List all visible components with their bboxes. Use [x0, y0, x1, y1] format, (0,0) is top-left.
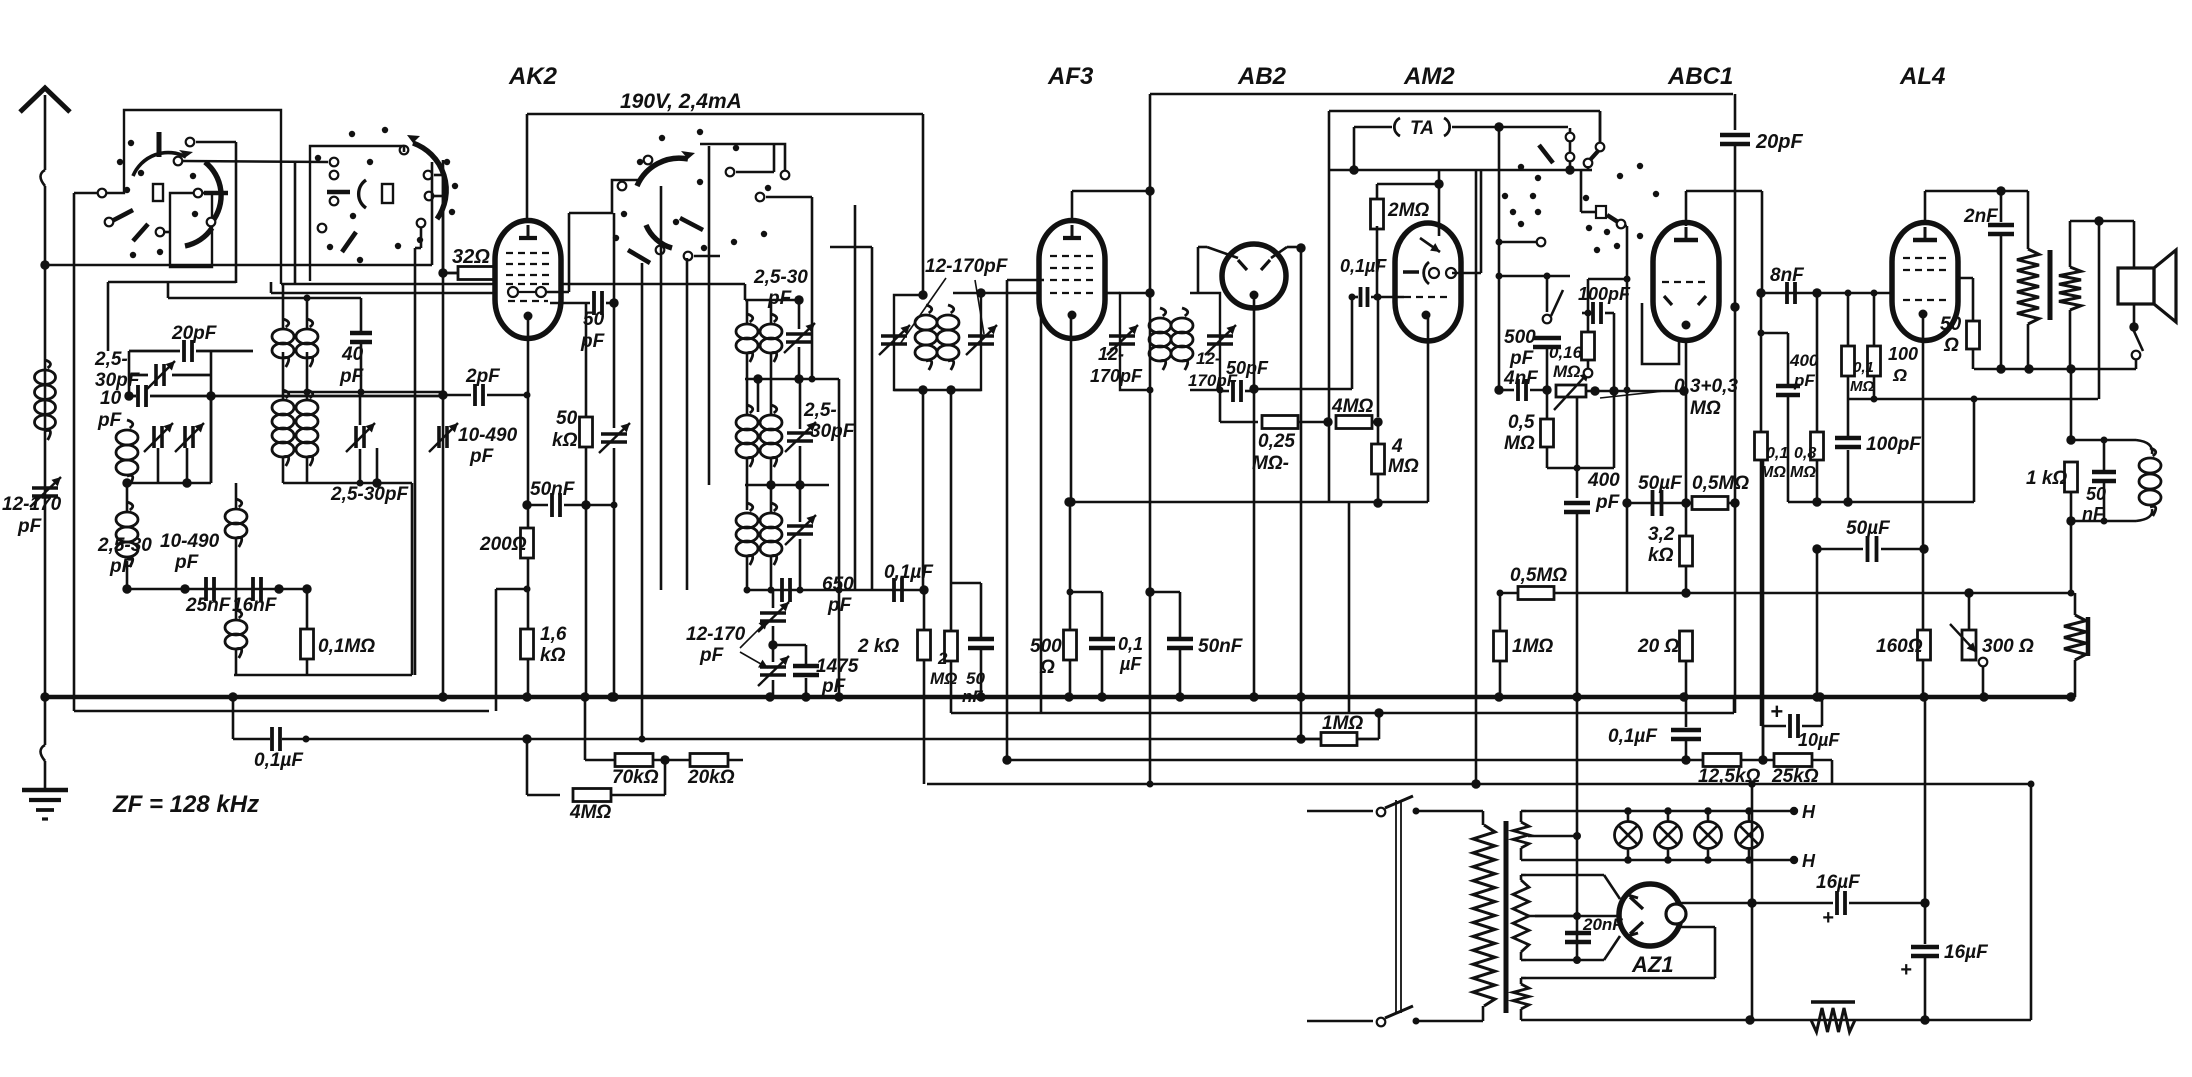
band switch S3 dots — [659, 135, 665, 141]
trimmer IFT2 right — [1207, 334, 1233, 338]
band switch S1 terminals — [98, 189, 107, 198]
wire lamps rows — [1526, 810, 1794, 813]
capacitor 50nF tone — [2092, 470, 2116, 475]
resistor 2Mohm AM2 — [1371, 199, 1384, 229]
rect filament winding — [1513, 984, 1529, 1009]
wire S3 terminal wires — [694, 255, 720, 258]
svg-text:500: 500 — [1504, 327, 1536, 348]
resistor 0,8Mohm AVC — [1811, 432, 1824, 460]
tube AL4 — [1892, 223, 1958, 341]
svg-text:MΩ: MΩ — [930, 669, 957, 688]
trimmer 2,5-30pF osc2 — [786, 332, 812, 336]
svg-text:70kΩ: 70kΩ — [612, 767, 659, 788]
capacitor 50pF — [592, 291, 596, 315]
wire 70k 20k row — [584, 747, 586, 760]
tube AK2 — [495, 221, 561, 339]
wire x1041 — [1040, 310, 1043, 713]
tube AZ1 — [1619, 884, 1681, 946]
output transformer primary — [2017, 249, 2039, 324]
wire output transformer primary — [2027, 191, 2030, 249]
resistor 20ohm — [1680, 631, 1693, 661]
coil osc pair 3 — [747, 503, 753, 511]
coil pair B — [283, 390, 289, 398]
svg-text:30pF: 30pF — [810, 421, 856, 442]
wire x1627 volume feed — [1626, 226, 1629, 503]
wire x1301 long — [1300, 247, 1303, 697]
wire pot network — [1498, 127, 1501, 390]
svg-text:MΩ-: MΩ- — [1252, 453, 1289, 474]
svg-text:AL4: AL4 — [1899, 63, 1945, 90]
svg-text:12-170: 12-170 — [2, 494, 62, 515]
svg-text:2,5-30: 2,5-30 — [97, 535, 152, 556]
wire S1 terminal wires — [196, 141, 236, 144]
capacitor 40pF — [350, 331, 372, 336]
resistor 0,5Mohm 593 — [1518, 587, 1554, 600]
svg-text:2: 2 — [937, 649, 948, 668]
svg-text:AB2: AB2 — [1237, 63, 1287, 90]
wire line AK2 g line to osc — [559, 283, 745, 286]
svg-text:0,1: 0,1 — [1766, 445, 1788, 462]
svg-text:pF: pF — [821, 676, 847, 697]
svg-text:10µF: 10µF — [1798, 730, 1840, 750]
svg-text:ABC1: ABC1 — [1667, 63, 1733, 90]
capacitor 650pF — [780, 578, 784, 602]
trimmer 2,5-30 pF — [152, 426, 156, 448]
band switch S2 levers — [327, 190, 350, 195]
capacitor 50uF AL4 — [1866, 536, 1870, 562]
capacitor 20pF — [182, 340, 186, 362]
wire grid4 line AK2 — [271, 292, 495, 295]
trimmer IFT1 right — [968, 334, 994, 338]
svg-text:0,16: 0,16 — [1549, 343, 1583, 362]
band switch S1 levers — [110, 210, 133, 222]
svg-text:pF: pF — [580, 331, 606, 352]
svg-text:pF: pF — [1595, 492, 1621, 513]
svg-text:MΩ: MΩ — [1690, 398, 1721, 419]
svg-text:MΩ: MΩ — [1850, 378, 1874, 395]
lamp — [1655, 822, 1682, 849]
wire 50uF line — [1816, 502, 1818, 549]
wire power bottom line — [1521, 1019, 2031, 1022]
wire x661 — [660, 186, 663, 590]
band switch S4 cluster — [1518, 164, 1524, 170]
coil L1 — [127, 420, 133, 428]
wire pair B bottom — [283, 482, 412, 485]
svg-text:0,8: 0,8 — [1794, 445, 1816, 462]
svg-text:0,1µF: 0,1µF — [1340, 256, 1387, 276]
ABC1 grid U — [1642, 303, 1679, 364]
wire 50k drop — [585, 303, 587, 417]
wire 0,25M row — [1220, 421, 1258, 424]
svg-text:pF: pF — [469, 446, 495, 467]
wire TA line — [1354, 126, 1392, 129]
svg-text:10-490: 10-490 — [458, 425, 518, 446]
wire rail B — [951, 712, 1734, 715]
wire tank B bottom — [745, 484, 829, 487]
tube AB2 — [1222, 244, 1286, 308]
svg-text:25nF: 25nF — [185, 595, 232, 616]
svg-text:300 Ω: 300 Ω — [1982, 636, 2034, 657]
resistor 0,5Mohm vert — [1541, 419, 1554, 447]
svg-text:50pF: 50pF — [1226, 358, 1269, 378]
trimmer 12-170pF osc B — [760, 665, 786, 669]
resistor 0,25Mohm — [1262, 416, 1298, 429]
wire osc tank bottom — [745, 378, 839, 381]
wire 50nF row — [527, 504, 586, 506]
svg-text:50: 50 — [1940, 314, 1962, 335]
capacitor 2nF — [1988, 223, 2014, 228]
variable capacitor 12-170pF antenna — [32, 486, 58, 490]
svg-text:MΩ: MΩ — [1790, 464, 1816, 481]
svg-text:20pF: 20pF — [171, 323, 218, 344]
lamp — [1615, 822, 1642, 849]
capacitor 0,1uF AK2 — [892, 578, 896, 602]
wire x2099 — [2098, 221, 2101, 399]
wire rail 0,1uF AVC — [232, 697, 235, 739]
svg-text:AM2: AM2 — [1403, 63, 1455, 90]
band switch S4 bottom terminal — [1499, 241, 1536, 244]
svg-text:1475: 1475 — [816, 656, 859, 677]
wire 100pF right — [1613, 313, 1616, 391]
wire 50uF row — [1628, 502, 1686, 505]
trimmer IFT1 left — [881, 334, 907, 338]
band switch S1 inner box — [170, 193, 212, 267]
wire long vertical x442 — [442, 160, 445, 697]
svg-text:0,25: 0,25 — [1258, 431, 1295, 452]
wire 4M vertical — [1377, 422, 1380, 444]
capacitor 50nF IF — [968, 637, 994, 642]
svg-text:kΩ: kΩ — [1648, 545, 1674, 566]
svg-text:8nF: 8nF — [1770, 265, 1805, 286]
output transformer secondary — [2059, 267, 2081, 310]
capacitor 20nF — [1565, 931, 1591, 936]
wire rail grid-bias right segment — [1006, 759, 1812, 762]
wire x415 long — [420, 227, 423, 248]
capacitor 10pF — [136, 385, 140, 407]
HV winding — [1513, 880, 1529, 952]
IF transformer 2 left box — [1120, 293, 1150, 390]
resistor 25kohm — [1774, 754, 1812, 767]
wire AZ1 filament line — [1535, 915, 1618, 918]
svg-text:MΩ: MΩ — [1388, 456, 1419, 477]
wire AL4 anode — [1924, 191, 1927, 223]
svg-text:50µF: 50µF — [1638, 473, 1683, 494]
svg-text:100pF: 100pF — [1578, 284, 1631, 304]
svg-text:12-: 12- — [1196, 349, 1221, 368]
svg-text:+: + — [1900, 959, 1912, 981]
svg-text:400: 400 — [1789, 351, 1819, 370]
tone network 1k 50nF coil — [2070, 369, 2073, 440]
svg-text:MΩ: MΩ — [1553, 362, 1580, 381]
barretter — [1811, 1000, 1855, 1003]
capacitor 50nF AK2 — [550, 493, 554, 517]
wire grid line joins — [206, 391, 215, 400]
resistor 4Mohm AB2 — [1336, 416, 1372, 429]
wire AF3 anode — [1071, 191, 1074, 221]
wire left vertical from S1 terminal — [74, 192, 97, 195]
wire anode down 2nF — [2000, 191, 2003, 222]
svg-text:1,6: 1,6 — [540, 624, 567, 645]
svg-text:0,1: 0,1 — [1118, 634, 1143, 654]
svg-text:200Ω: 200Ω — [479, 534, 527, 555]
svg-text:AF3: AF3 — [1047, 63, 1094, 90]
band switch S1 frame — [102, 110, 281, 284]
wire x1925 below bus — [1924, 697, 1927, 903]
capacitor 100pF AL4 — [1835, 436, 1861, 441]
wire x839 — [838, 379, 841, 697]
capacitor 4nF — [1516, 379, 1520, 401]
band switch S4 path to grid — [1580, 170, 1583, 212]
wire speaker return — [1974, 368, 2136, 371]
wire antenna junction — [40, 260, 49, 269]
svg-text:12-170pF: 12-170pF — [925, 256, 1009, 277]
svg-text:0,5MΩ: 0,5MΩ — [1510, 565, 1567, 586]
svg-text:Ω: Ω — [1039, 657, 1055, 678]
IFT1 coils — [926, 305, 932, 313]
svg-text:0,1MΩ: 0,1MΩ — [318, 636, 375, 657]
svg-text:2 kΩ: 2 kΩ — [857, 636, 899, 657]
svg-text:1 kΩ: 1 kΩ — [2026, 468, 2067, 489]
wire AB2 anode feed — [1207, 247, 1238, 258]
wire 50nF branch — [1150, 591, 1180, 594]
svg-text:20nF: 20nF — [1582, 915, 1623, 934]
resistor 1Mohm horiz — [1321, 733, 1357, 746]
wire pot bottom loop — [1547, 467, 1614, 470]
wire osc coil mid — [235, 483, 238, 509]
wire IFT1 right down — [950, 390, 953, 583]
svg-text:12-170: 12-170 — [686, 624, 746, 645]
wire pot wiper — [1576, 397, 1579, 498]
capacitor 20pF — [1733, 93, 1735, 95]
svg-text:16nF: 16nF — [232, 595, 278, 616]
heater winding top — [1513, 822, 1529, 848]
capacitor 10uF — [1762, 726, 1765, 760]
wire trimmer bottoms — [127, 482, 211, 485]
resistor 0,16Mohm — [1582, 332, 1595, 360]
svg-text:+: + — [1822, 907, 1834, 929]
svg-text:+: + — [1770, 699, 1783, 724]
resistor 0,1Mohm AL4 — [1842, 346, 1855, 376]
wire 190V rail — [527, 113, 923, 116]
trimmer 2,5-30pF osc — [354, 426, 358, 448]
wire x1763 from AVC — [1762, 461, 1765, 760]
svg-text:20 Ω: 20 Ω — [1637, 636, 1679, 657]
band switch S2 arcs — [413, 143, 446, 219]
svg-text:16µF: 16µF — [1816, 872, 1861, 893]
resistor 100ohm — [1868, 346, 1881, 376]
wire 8nF line — [1761, 191, 1764, 293]
wire AL4 cathode — [1922, 314, 1925, 697]
band switch S2 dots — [349, 131, 355, 137]
wire B+ vertical — [1751, 784, 1754, 903]
tube AF3 — [1039, 221, 1105, 339]
wire x1150 down — [1149, 191, 1152, 293]
coil L2 — [126, 483, 129, 512]
wire x709 — [708, 146, 711, 485]
transformer primary — [1482, 811, 1485, 825]
wire S2 terminal wires — [403, 146, 406, 152]
wire x855 x872 long — [854, 205, 857, 590]
wire AF3 grid line — [981, 292, 1039, 295]
band switch S3 frame — [612, 144, 785, 213]
lamp — [1736, 822, 1763, 849]
resistor 50ohm — [1967, 321, 1980, 349]
wire 0,1uF branch — [1070, 591, 1102, 594]
capacitor 16nF — [251, 577, 255, 601]
trimmer 10-490 pF — [183, 426, 187, 448]
resistor 0,5Mohm horiz — [1692, 497, 1728, 510]
wire AB2 anode2 — [1271, 247, 1287, 258]
trimmer 12-170pF osc A — [760, 611, 786, 615]
wire second tank — [757, 379, 760, 412]
svg-text:10: 10 — [100, 388, 122, 409]
IFT2 coils — [1160, 308, 1166, 316]
wire right box vertical — [411, 483, 414, 675]
AZ1 cathode loop — [1679, 926, 1715, 929]
svg-text:10-490: 10-490 — [160, 531, 220, 552]
output transformer core — [2048, 250, 2053, 320]
wire 4Mohm loop — [526, 739, 529, 795]
svg-text:1MΩ: 1MΩ — [1512, 636, 1553, 657]
capacitor 2pF — [473, 384, 477, 406]
wire x642 long — [641, 263, 644, 739]
svg-text:100: 100 — [1888, 344, 1918, 364]
wire 1M lead — [1374, 708, 1383, 717]
svg-text:TA: TA — [1410, 118, 1434, 139]
svg-text:MΩ: MΩ — [1760, 464, 1786, 481]
wire AM2 g out right — [1452, 272, 1481, 275]
winding tap top — [1528, 835, 1577, 838]
resistor 0,1Mohm AVC — [1755, 432, 1768, 460]
wire diode out — [1254, 388, 1352, 391]
ground — [22, 788, 68, 793]
capacitor 50nF AF3 — [1167, 637, 1193, 642]
svg-text:pF: pF — [767, 288, 793, 309]
resistor 1kohm — [2065, 462, 2078, 492]
svg-text:12-: 12- — [1098, 344, 1124, 364]
capacitor 0,1uF AF3 — [1089, 637, 1115, 642]
wire AL4 grid drop — [1873, 293, 1876, 345]
wire AZ1 cathode loop2 — [1526, 977, 1715, 980]
svg-text:Ω: Ω — [1943, 335, 1959, 356]
wire S1 lower line — [281, 283, 493, 286]
svg-text:kΩ: kΩ — [552, 430, 578, 451]
wire AK2 g2 line right — [546, 291, 569, 294]
wire rail A (AVC left) — [74, 710, 489, 713]
IF transformer 1 left box — [894, 295, 923, 390]
wire x1476 long — [1475, 170, 1478, 784]
wire TA drop left — [1353, 127, 1356, 170]
wire routing row 298 — [167, 282, 170, 298]
svg-text:2pF: 2pF — [465, 366, 501, 387]
svg-text:32Ω: 32Ω — [452, 246, 490, 268]
wire rail grid-bias left segment — [585, 759, 743, 762]
wire heater bias line — [1576, 697, 1579, 960]
svg-text:pF: pF — [1793, 371, 1815, 390]
switch lever 500pF — [1543, 315, 1552, 324]
wire inner box top — [1499, 275, 1570, 278]
wire AB2 cathode down — [1253, 295, 1256, 389]
svg-text:100pF: 100pF — [1866, 434, 1922, 455]
resistor 12,5kohm — [1703, 754, 1741, 767]
wire x2031 — [2030, 784, 2033, 1020]
coil pair A — [283, 319, 289, 327]
wire grid 2M area — [1376, 184, 1379, 202]
wire bottom row left — [127, 588, 307, 591]
svg-text:4MΩ: 4MΩ — [1331, 396, 1373, 417]
wire x1761 down to psu — [1760, 460, 1763, 726]
capacitor 1475pF — [793, 664, 819, 669]
wire AB2 top rail — [1150, 93, 1733, 96]
wire line 502 — [1069, 501, 1428, 504]
wire AZ1 output — [1680, 902, 1752, 905]
capacitor 50uF — [1651, 490, 1655, 516]
resistor 20kohm — [690, 754, 728, 767]
svg-text:2MΩ: 2MΩ — [1387, 200, 1429, 221]
svg-text:ZF = 128 kHz: ZF = 128 kHz — [112, 791, 259, 818]
band switch S1 plate bar — [157, 132, 162, 157]
svg-text:pF: pF — [17, 516, 43, 537]
svg-text:H: H — [1802, 802, 1816, 822]
svg-text:pF: pF — [174, 552, 200, 573]
wire ABC1 top — [1685, 191, 1688, 226]
svg-text:AK2: AK2 — [508, 63, 558, 90]
svg-text:2nF: 2nF — [1963, 206, 1999, 227]
wire x614 vertical — [613, 213, 616, 303]
coil tone — [2071, 439, 2136, 442]
resistor 160ohm — [1918, 630, 1931, 660]
svg-text:2,5-30: 2,5-30 — [753, 267, 808, 288]
trimmer 10-490pF osc padder — [601, 432, 627, 436]
svg-text:650: 650 — [822, 574, 854, 595]
wire 650pF row — [745, 589, 924, 592]
wire rail bottom AVC — [927, 783, 2031, 786]
resistor 1Mohm vert — [1494, 631, 1507, 661]
wire x687 long — [686, 258, 689, 590]
band switch S3 terminals — [644, 156, 653, 165]
coil L3 bottom — [236, 610, 242, 618]
IF transformer 1 right box — [951, 293, 981, 390]
svg-text:25kΩ: 25kΩ — [1771, 766, 1819, 787]
resistor 4Mohm — [573, 789, 611, 802]
band switch S2 terminals — [330, 171, 339, 180]
svg-text:0,1µF: 0,1µF — [254, 750, 304, 771]
svg-text:2,5-: 2,5- — [803, 400, 837, 421]
trimmer 2,5-30pF osc3 — [787, 431, 813, 435]
field coil — [2064, 615, 2086, 660]
svg-text:0,5MΩ: 0,5MΩ — [1692, 473, 1749, 494]
capacitor 16uF a — [1835, 891, 1839, 915]
resistor 2Mohm IF — [945, 631, 958, 661]
mains switch — [1307, 810, 1373, 813]
band switch S2 frame — [310, 146, 404, 281]
svg-text:4MΩ: 4MΩ — [569, 802, 611, 823]
band switch S2 rect — [382, 184, 393, 203]
antenna — [20, 88, 70, 112]
tube AM2 — [1395, 223, 1461, 341]
IF transformer 2 right box — [1190, 293, 1220, 390]
wire pair A bottom — [283, 391, 443, 394]
capacitor 50pF AB2 — [1231, 380, 1235, 402]
potentiometer 0,3+0,3Mohm — [1556, 385, 1586, 397]
band switch S4 stray lever — [1539, 145, 1553, 163]
trimmer 2,5-30pF osc4 — [787, 524, 813, 528]
svg-text:170pF: 170pF — [1090, 366, 1143, 386]
wire line 170 — [1329, 169, 1581, 172]
svg-text:Ω: Ω — [1892, 365, 1907, 385]
wire osc sw drop — [442, 175, 445, 273]
svg-text:0,1: 0,1 — [1853, 359, 1874, 376]
